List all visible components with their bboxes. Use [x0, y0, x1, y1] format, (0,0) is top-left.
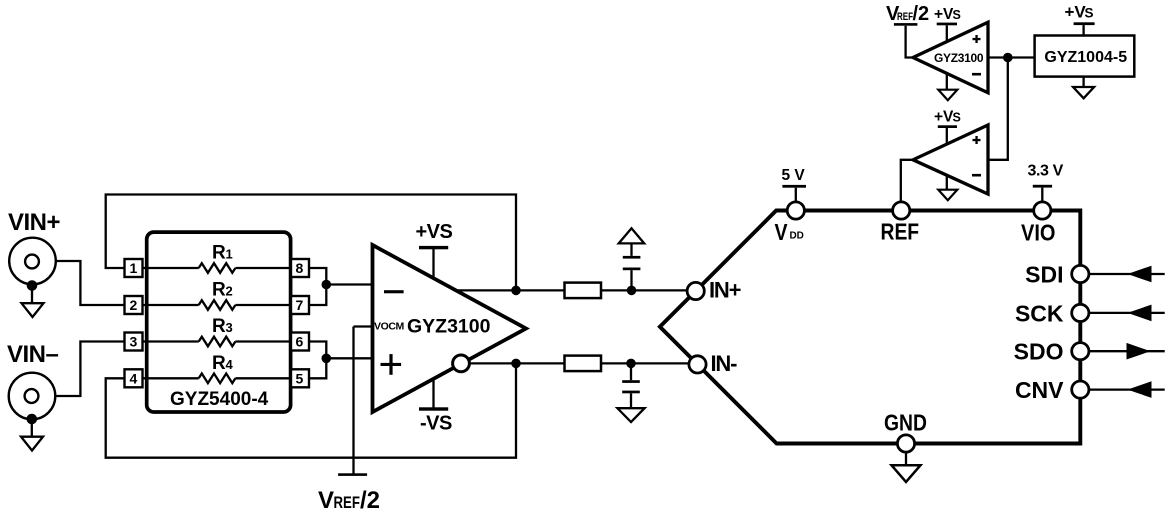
wire SDI: [1089, 273, 1165, 275]
arrow into SCK: [1128, 305, 1152, 322]
node reference junction: [1003, 53, 1013, 63]
U3 minus marker: [972, 174, 981, 177]
svg-text:GND: GND: [884, 411, 927, 436]
svg-text:GYZ3100: GYZ3100: [407, 316, 491, 338]
pin SDI: [1072, 265, 1089, 282]
label VREF/2 (top): [886, 3, 929, 25]
svg-text:-VS: -VS: [420, 413, 452, 435]
svg-text:IN+: IN+: [709, 278, 741, 303]
series resistor (top): [565, 283, 602, 299]
U1 plus input marker: [381, 363, 402, 366]
arrow out of SDO: [1127, 343, 1151, 360]
wire +output to IN+: [456, 289, 687, 291]
wire feedback top (pin1 to +out): [106, 195, 516, 291]
wire VIN- to pin 3: [56, 342, 125, 397]
pin CNV: [1072, 381, 1089, 398]
svg-text:S: S: [1085, 6, 1094, 21]
wire VREF/2 rail to VOCM: [354, 327, 373, 475]
svg-text:5 V: 5 V: [782, 167, 806, 184]
svg-text:VIN–: VIN–: [7, 341, 59, 368]
svg-text:IN-: IN-: [711, 351, 738, 376]
svg-text:+V: +V: [934, 108, 954, 125]
svg-text:8: 8: [296, 260, 304, 276]
net symbol down (bottom cap): [617, 408, 644, 422]
svg-text:R: R: [212, 353, 226, 374]
pin GND: [897, 435, 914, 452]
svg-text:4: 4: [226, 357, 234, 372]
svg-text:2: 2: [130, 297, 138, 313]
op-amp U2 GYZ3100 (reference, points left): [913, 22, 988, 93]
svg-text:V: V: [775, 219, 789, 245]
svg-text:1: 1: [130, 260, 138, 276]
label VREF/2 (bottom): [318, 487, 380, 514]
pin IN+: [687, 282, 704, 299]
VREF/2 rail (top): [894, 23, 918, 26]
pin 3: [125, 333, 143, 351]
svg-text:VIO: VIO: [1021, 219, 1055, 246]
pin VIO: [1034, 202, 1051, 219]
pin 1: [125, 259, 143, 277]
resistor R4: [143, 374, 292, 384]
svg-text:GYZ1004-5: GYZ1004-5: [1044, 49, 1127, 66]
svg-text:DD: DD: [790, 230, 804, 241]
svg-text:4: 4: [130, 370, 138, 386]
svg-text:3.3 V: 3.3 V: [1028, 163, 1064, 180]
ground (GYZ1004-5): [1082, 77, 1084, 87]
node +out feedback junction: [511, 286, 521, 296]
svg-text:SDI: SDI: [1025, 262, 1063, 288]
svg-text:R: R: [212, 280, 226, 301]
VREF/2 rail bar: [338, 473, 367, 476]
ground (VIN+ connector): [22, 280, 44, 317]
connector J1 VIN+: [9, 238, 56, 285]
pin 6: [291, 333, 309, 351]
wire U2 output to GYZ1004-5: [988, 56, 1035, 58]
wire pins 8,7 to inverting input: [309, 268, 373, 305]
wire U3 output to node: [988, 58, 1008, 160]
pin 4: [125, 369, 143, 387]
ground (U2): [946, 73, 948, 89]
svg-text:S: S: [953, 110, 961, 124]
pin 7: [291, 296, 309, 314]
svg-text:R: R: [212, 243, 226, 264]
svg-text:2: 2: [226, 284, 233, 299]
pin IN-: [689, 356, 706, 373]
svg-text:REF: REF: [881, 220, 920, 245]
svg-text:/2: /2: [913, 3, 930, 25]
svg-text:+VS: +VS: [416, 221, 453, 243]
capacitor C2 (bottom): [622, 363, 640, 408]
supply bar 3.3V: [1033, 185, 1052, 188]
wire -output to IN-: [469, 362, 689, 364]
pin 5: [291, 369, 309, 387]
wire SCK: [1089, 312, 1165, 314]
resistor R1: [143, 263, 292, 273]
svg-text:3: 3: [130, 334, 138, 350]
svg-text:GYZ3100: GYZ3100: [934, 51, 984, 65]
svg-text:S: S: [953, 8, 961, 22]
svg-text:SDO: SDO: [1014, 339, 1064, 365]
wire SDO: [1089, 350, 1165, 352]
svg-text:/2: /2: [360, 487, 380, 514]
ground (U3): [946, 175, 948, 190]
node bottom RC junction: [626, 359, 636, 369]
U3 plus marker: [973, 139, 981, 141]
svg-text:1: 1: [226, 247, 233, 262]
svg-text:V: V: [318, 487, 334, 514]
svg-text:6: 6: [296, 334, 304, 350]
series resistor (bottom): [565, 356, 602, 372]
resistor R2: [143, 300, 292, 310]
pin 8: [291, 259, 309, 277]
resistor R3: [143, 337, 292, 347]
node junction pins 8,7: [322, 280, 332, 290]
op-amp U1 GYZ3100 (fully differential driver): [373, 245, 527, 412]
svg-text:VIN+: VIN+: [8, 209, 61, 236]
ground (ADC): [905, 452, 907, 465]
svg-text:+V: +V: [1065, 3, 1087, 22]
arrow into CNV: [1128, 381, 1152, 398]
U1 minus input marker: [384, 290, 404, 293]
svg-text:7: 7: [296, 297, 304, 313]
pin VDD: [787, 202, 804, 219]
arrow into SDI: [1128, 266, 1152, 283]
node -out feedback junction: [511, 359, 521, 369]
op-amp U3 (reference buffer, points left): [913, 125, 988, 194]
resistor network GYZ5400-4 box: [147, 232, 291, 412]
svg-text:R: R: [212, 316, 226, 337]
wire REF to buffer: [901, 160, 913, 202]
svg-text:REF: REF: [897, 11, 913, 24]
svg-text:5: 5: [296, 370, 304, 386]
wire CNV: [1089, 388, 1165, 390]
U1 inverted output bubble: [453, 355, 470, 372]
pin 2: [125, 296, 143, 314]
wire VIN+ to pin 2: [56, 261, 125, 305]
svg-text:REF: REF: [334, 494, 360, 513]
U2 minus marker: [972, 73, 981, 76]
svg-text:+V: +V: [934, 6, 954, 23]
pin REF: [893, 202, 910, 219]
ADC body outline: [660, 211, 1080, 444]
ground (VIN- connector): [21, 414, 43, 451]
pin SCK: [1072, 304, 1089, 321]
wire pins 6,5 to non-inverting input: [309, 342, 373, 379]
svg-text:VOCM: VOCM: [374, 321, 405, 333]
pin SDO: [1072, 343, 1089, 360]
node top RC junction: [627, 286, 637, 296]
net symbol up (top cap): [619, 228, 645, 243]
capacitor C1 (top): [623, 244, 641, 291]
wire feedback bottom (pin4 to -out): [106, 363, 516, 457]
supply bar 5V: [782, 185, 806, 188]
IC GYZ1004-5: [1035, 36, 1135, 77]
U2 plus marker: [973, 38, 981, 40]
svg-text:CNV: CNV: [1015, 377, 1064, 403]
svg-text:SCK: SCK: [1015, 300, 1064, 326]
svg-text:GYZ5400-4: GYZ5400-4: [170, 389, 269, 410]
connector J2 VIN-: [9, 373, 56, 420]
svg-text:3: 3: [226, 320, 233, 335]
node junction pins 6,5: [322, 354, 332, 364]
U1 -VS supply: [432, 378, 434, 408]
